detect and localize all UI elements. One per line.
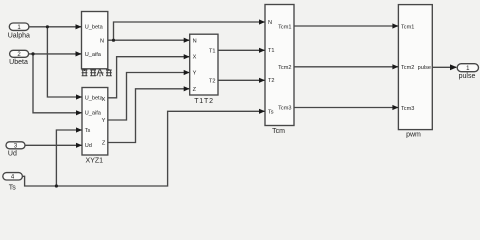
svg-text:pulse: pulse <box>418 65 431 71</box>
svg-text:pwm: pwm <box>406 132 421 139</box>
svg-text:Z: Z <box>193 87 197 93</box>
svg-text:N: N <box>268 20 272 26</box>
svg-text:Y: Y <box>102 118 106 124</box>
svg-text:Tcm3: Tcm3 <box>401 106 414 112</box>
svg-text:X: X <box>102 97 106 103</box>
svg-text:T1: T1 <box>268 48 275 54</box>
svg-text:Tcm2: Tcm2 <box>278 65 291 71</box>
svg-text:N: N <box>100 38 104 44</box>
svg-text:T2: T2 <box>268 78 275 84</box>
svg-text:U_aifa: U_aifa <box>85 110 102 116</box>
svg-text:T1: T1 <box>209 49 216 55</box>
svg-text:T2: T2 <box>209 79 216 85</box>
svg-text:Ualpha: Ualpha <box>8 33 30 40</box>
svg-text:Ts: Ts <box>85 128 91 134</box>
svg-text:Ts: Ts <box>268 109 274 115</box>
svg-text:XYZ1: XYZ1 <box>86 158 104 165</box>
svg-text:Tcm1: Tcm1 <box>401 25 414 31</box>
svg-text:U_beta: U_beta <box>85 25 104 31</box>
svg-text:T1T2: T1T2 <box>194 98 214 105</box>
svg-text:Ubeta: Ubeta <box>9 59 28 66</box>
svg-text:Tcm: Tcm <box>272 128 285 135</box>
svg-text:N: N <box>193 38 197 44</box>
svg-text:Tcm3: Tcm3 <box>278 106 291 112</box>
svg-text:X: X <box>193 55 197 61</box>
svg-text:Y: Y <box>193 71 197 77</box>
svg-text:Ud: Ud <box>85 143 92 149</box>
svg-text:Ts: Ts <box>9 185 17 192</box>
svg-text:Tcm1: Tcm1 <box>278 24 291 30</box>
svg-text:Z: Z <box>102 140 106 146</box>
svg-text:pulse: pulse <box>459 73 476 80</box>
svg-text:U_aifa: U_aifa <box>85 52 102 58</box>
svg-text:Tcm2: Tcm2 <box>401 65 414 71</box>
svg-text:Ud: Ud <box>8 151 17 158</box>
